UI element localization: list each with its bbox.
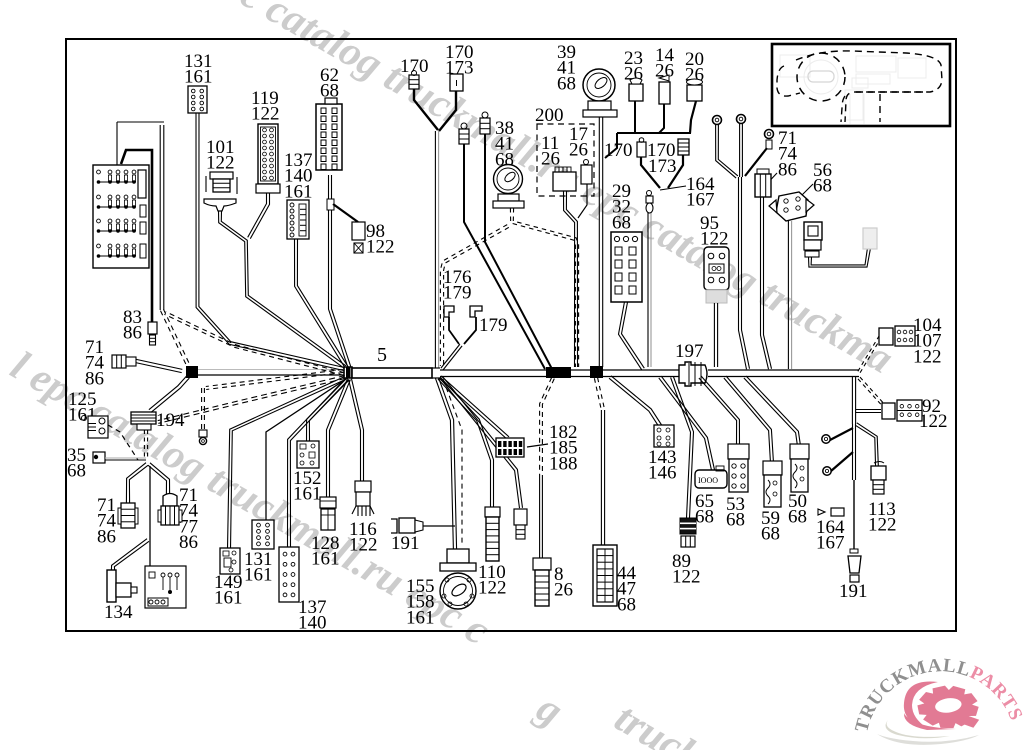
svg-text:179: 179 [479,315,508,336]
label 152 161 [293,468,322,505]
label 200 [535,105,564,126]
wire hub to 125 dashed [158,376,346,424]
svg-text:167: 167 [816,533,845,554]
wire 170 V [414,89,456,131]
connector 44-47-68 [593,545,617,606]
connector 71-74-86 bottom [118,503,138,528]
label 149 161 [214,572,243,609]
svg-text:86: 86 [778,159,797,180]
wire hub to 149 [228,377,346,549]
label 110 122 [478,562,507,599]
wire 95 down [714,303,717,367]
wire right lamp down [853,424,856,549]
connector 143 [654,425,674,447]
wire hub to 152 [307,378,350,443]
connector 128 [320,497,336,530]
wire dashed hub-left b [164,312,344,376]
wire V left branch [126,463,148,505]
label 197 [675,341,704,362]
svg-text:161: 161 [406,607,435,628]
wire trunk end vertical [852,377,855,424]
connector 65 [695,466,727,488]
label 131 161 bottom [244,549,273,586]
wire hub to 131b [266,379,346,521]
svg-text:68: 68 [557,73,576,94]
label 125 161 [68,389,97,426]
wire 182 pointer [527,444,548,447]
connector 137 top [287,200,309,239]
label 119 122 [251,88,280,125]
connector 89 [680,518,696,547]
connector 170 mid-b [678,139,689,155]
label 92 122 [919,396,948,432]
wire dashed gauge38 left [440,225,508,366]
label 104 107 122 [913,315,942,367]
svg-text:IOOO: IOOO [698,476,718,485]
label 179 right [479,315,508,336]
connector ground tick [199,430,207,437]
wire trunk to 53 [699,376,740,446]
label 170 173 [445,42,474,79]
wire 17 down [578,184,587,218]
label 116 122 [349,519,378,556]
svg-text:122: 122 [206,153,235,174]
label 134 [104,602,133,623]
ignition switch 155 [440,549,476,609]
connector 62 [316,98,342,170]
wire 62 down [329,175,352,370]
connector 17-26 [581,160,592,185]
connector 98 [352,222,365,253]
wire 170 mid V [641,155,683,188]
label 101 122 [206,137,235,174]
label 56 68 [813,160,832,197]
component 194 [131,412,156,430]
svg-text:68: 68 [726,510,745,531]
wire to 113 [855,423,878,468]
connector 197 [679,362,707,386]
svg-text:167: 167 [686,190,715,211]
svg-text:197: 197 [675,341,704,362]
svg-text:122: 122 [919,411,948,432]
box 200 dashed [537,124,594,196]
svg-text:86: 86 [179,532,198,553]
label 39 41 68 [557,42,576,94]
wire 29 down [619,302,645,370]
svg-text:134: 134 [104,602,133,623]
wire ring3 diag [745,148,767,176]
label 5 [377,344,387,366]
connector 8-26 [533,558,551,606]
connector 50 [790,444,809,492]
label 131 161 top [184,51,213,88]
connector 170 left [409,71,419,90]
svg-text:161: 161 [214,588,243,609]
label 11 26 [541,133,560,170]
label 137 140 bottom [298,597,327,634]
ring right 1 [822,435,830,443]
connector 83 [148,322,157,345]
wire 125 dashed [108,425,138,460]
wire 131 down [196,113,344,371]
wire center down [149,466,151,566]
label 17 26 inner [569,124,588,161]
label 23 26 [624,48,643,85]
label 98 122 [366,221,395,258]
wire ring ground [202,388,205,430]
label 8 26 [554,564,573,601]
svg-text:200: 200 [535,105,564,126]
wire hub2 to 155 [436,378,457,551]
wire relay right bend [809,248,871,267]
wire hub2 to 110 [438,377,494,508]
wire 62 tick [327,199,334,210]
connector 35 [93,452,105,463]
label 71 74 86 left [85,337,105,389]
label 164 167 botright [816,517,845,554]
connector 59 [763,461,782,507]
label 170 173 mid-b [647,140,677,177]
dashboard inset [772,44,950,126]
connector 119 [256,124,280,193]
wire hub to 128 [327,378,351,499]
label 143 146 [648,447,677,484]
connector 176 flag a [444,306,454,317]
svg-text:191: 191 [839,581,868,602]
connector 110 [485,507,500,561]
svg-text:122: 122 [913,346,942,367]
node main left [186,366,198,378]
wire ring right2 [831,452,853,471]
svg-text:86: 86 [123,323,142,344]
node trunk mid [546,366,603,378]
wire 164 down [648,213,651,367]
wire 71-74-86 to node [136,359,183,372]
label 155 158 161 [406,576,435,628]
svg-text:122: 122 [366,237,395,258]
label 164 167 top [686,174,715,211]
label 182 185 188 [549,422,578,474]
connector 95 [704,247,729,303]
wire dashed to 92 [858,377,887,409]
wire 191 to 155 [423,525,455,527]
wire ring right1 [830,428,853,440]
wire trunk to 143 [609,376,662,428]
gauge 39 tachometer [583,69,617,117]
wire 101 down [219,211,346,368]
label 71 74 86 topright [778,128,798,180]
wire 137 down [295,239,349,369]
wire trunk to 59 [724,376,774,463]
wire 164 pointer [660,186,686,190]
connector 53 [728,444,749,492]
symbol 164 botright [818,508,844,516]
label 62 68 [320,65,339,102]
connector 71-74-86 topright [755,169,771,197]
wire 119 down [248,193,270,239]
ring terminal 3 [765,130,774,150]
ring right 2 [823,467,831,475]
label 170 left [400,56,429,77]
wire 170 V down [435,131,438,368]
connector 134 [107,570,137,602]
svg-text:173: 173 [648,156,677,177]
svg-text:170: 170 [604,140,633,161]
wire 56 pointer [800,184,813,197]
connector 125 [82,416,109,439]
label 176 179 [443,267,472,304]
label 53 68 [726,494,745,531]
ring terminal 2 [737,115,746,124]
label 170 mid-a [604,140,633,161]
connector 29-32-68 [611,232,642,302]
connector 113 [871,462,886,495]
svg-text:122: 122 [251,104,280,125]
ring ground [199,437,206,444]
label 38 41 68 [495,118,514,170]
wire thick battery [121,150,152,322]
connector 182 [496,438,524,457]
connector 170 mid-a [637,138,646,157]
trunk left segment [198,370,344,376]
wire hub to 137b [288,378,349,548]
wire 71 pointer [762,173,777,189]
wire to 98 [333,204,358,222]
label 194 [156,410,185,431]
label 71 74 86 bottom [97,495,117,547]
label 65 68 [695,491,714,528]
component 101 horn [204,172,237,211]
connector faded right [863,228,877,249]
trunk bar 5 [352,368,432,378]
label 113 122 [868,499,897,536]
svg-text:26: 26 [569,140,588,161]
wire gauge38 dashes right [510,208,578,367]
connector 23 [629,78,643,101]
wire 38a diag [464,144,545,369]
wire hub2 to 110side [440,376,523,508]
connector 71-74-86 left [112,355,136,368]
wire 194 dashed down [144,430,147,458]
connector 191 left [391,518,423,533]
wire node to 194 [149,376,189,412]
connector 137 bottom [279,547,299,602]
gauge 38 speedometer [493,165,524,209]
wire 35 to junction [105,458,146,460]
label 191 left [391,533,420,554]
wire to 134 [111,539,149,570]
svg-text:68: 68 [761,524,780,545]
svg-text:161: 161 [293,484,322,505]
ring terminal 1 [713,116,722,125]
svg-text:146: 146 [648,463,677,484]
logo truckmallparts [851,655,1024,745]
svg-text:179: 179 [443,283,472,304]
svg-text:86: 86 [97,526,116,547]
trunk mid segment [440,370,590,377]
svg-text:161: 161 [244,565,273,586]
wire trunk to 89 [671,377,694,519]
relay box 134 area [145,566,186,608]
connector 176-38 a [459,123,469,144]
connector 131 top [188,86,207,113]
label 137 140 161 top [284,150,313,202]
svg-text:161: 161 [184,67,213,88]
svg-text:68: 68 [788,507,807,528]
hub right [432,368,440,378]
wire 71tr down [761,197,772,369]
border frame [66,39,956,631]
connector 14 [659,75,670,104]
svg-text:161: 161 [284,181,313,202]
label 59 68 [761,508,780,545]
label 50 68 [788,491,807,528]
label 44 47 68 [617,563,637,615]
relay right [804,222,822,257]
label 71 74 77 86 [179,485,199,553]
label 95 122 [700,213,729,250]
trunk right segment [708,370,859,377]
wire V right branch [148,463,170,494]
wire fuse box right vertical [160,125,164,310]
svg-text:122: 122 [349,535,378,556]
wire 176 V [441,317,476,370]
svg-text:188: 188 [549,453,578,474]
connector 20 [687,79,703,101]
fuse box [93,165,149,268]
svg-text:170: 170 [400,56,429,77]
connector 149 [220,548,240,574]
label 14 26 [655,45,675,82]
trunk mid2 segment [603,370,679,377]
wire fuse box dashed to node [161,309,192,369]
connector 92 [882,400,922,421]
wire dashed to 104 [858,336,881,372]
connector 176 flag b [470,306,482,317]
svg-text:68: 68 [695,507,714,528]
svg-text:68: 68 [813,176,832,197]
wire dashed hub-left a [206,370,343,390]
svg-text:191: 191 [391,533,420,554]
wire hub2 to 182 [439,376,509,439]
wire fuse box top [117,122,164,165]
relay in 200 box [553,167,576,191]
wire trunk to 50 [744,376,801,446]
connector 116 [352,481,374,516]
wire hub2 to 155 dash [443,379,462,545]
connector 170-173 [450,74,463,91]
wire hub to 116 [349,379,364,482]
connector 38 b [480,112,490,134]
label 89 122 [672,551,701,588]
connector 152 [297,441,319,468]
label 29 32 68 [612,181,631,233]
wire rings down [739,177,750,369]
svg-text:86: 86 [85,368,104,389]
label 191 right [839,581,868,602]
wire 38b diag [485,134,552,369]
svg-text:26: 26 [554,580,573,601]
connector 104 [879,326,915,346]
connector 71-74-77-86 [158,494,182,526]
svg-text:161: 161 [311,549,340,570]
svg-text:68: 68 [617,594,636,615]
label 128 161 [311,533,340,570]
svg-text:122: 122 [478,578,507,599]
svg-text:122: 122 [672,567,701,588]
connector 110 side [514,509,527,539]
wire 200 down [564,191,578,367]
wire 56 down [788,221,791,369]
wire ring1 [716,124,738,178]
wire to 92 horiz [856,410,881,413]
wire 23-14-20 bus [605,101,696,158]
svg-text:68: 68 [612,212,631,233]
lamp 191 right [848,549,861,582]
label 83 86 [123,307,142,344]
svg-text:68: 68 [67,461,86,482]
connector 131 bottom [252,520,274,549]
label 20 26 [685,49,704,86]
wire trunk to 65 [659,376,715,470]
svg-text:140: 140 [298,613,327,634]
wire gauge39 stem [599,117,602,367]
svg-text:5: 5 [377,344,387,366]
wire trunk to 4447 [594,378,604,546]
connector 164 small [646,191,653,214]
svg-text:122: 122 [868,515,897,536]
label 35 68 [67,445,86,482]
ignition switch 56 [769,192,814,221]
svg-text:194: 194 [156,410,185,431]
wire trunk dash 8-26 [540,377,555,558]
wire ring2 [740,123,743,177]
hub left [344,367,352,378]
